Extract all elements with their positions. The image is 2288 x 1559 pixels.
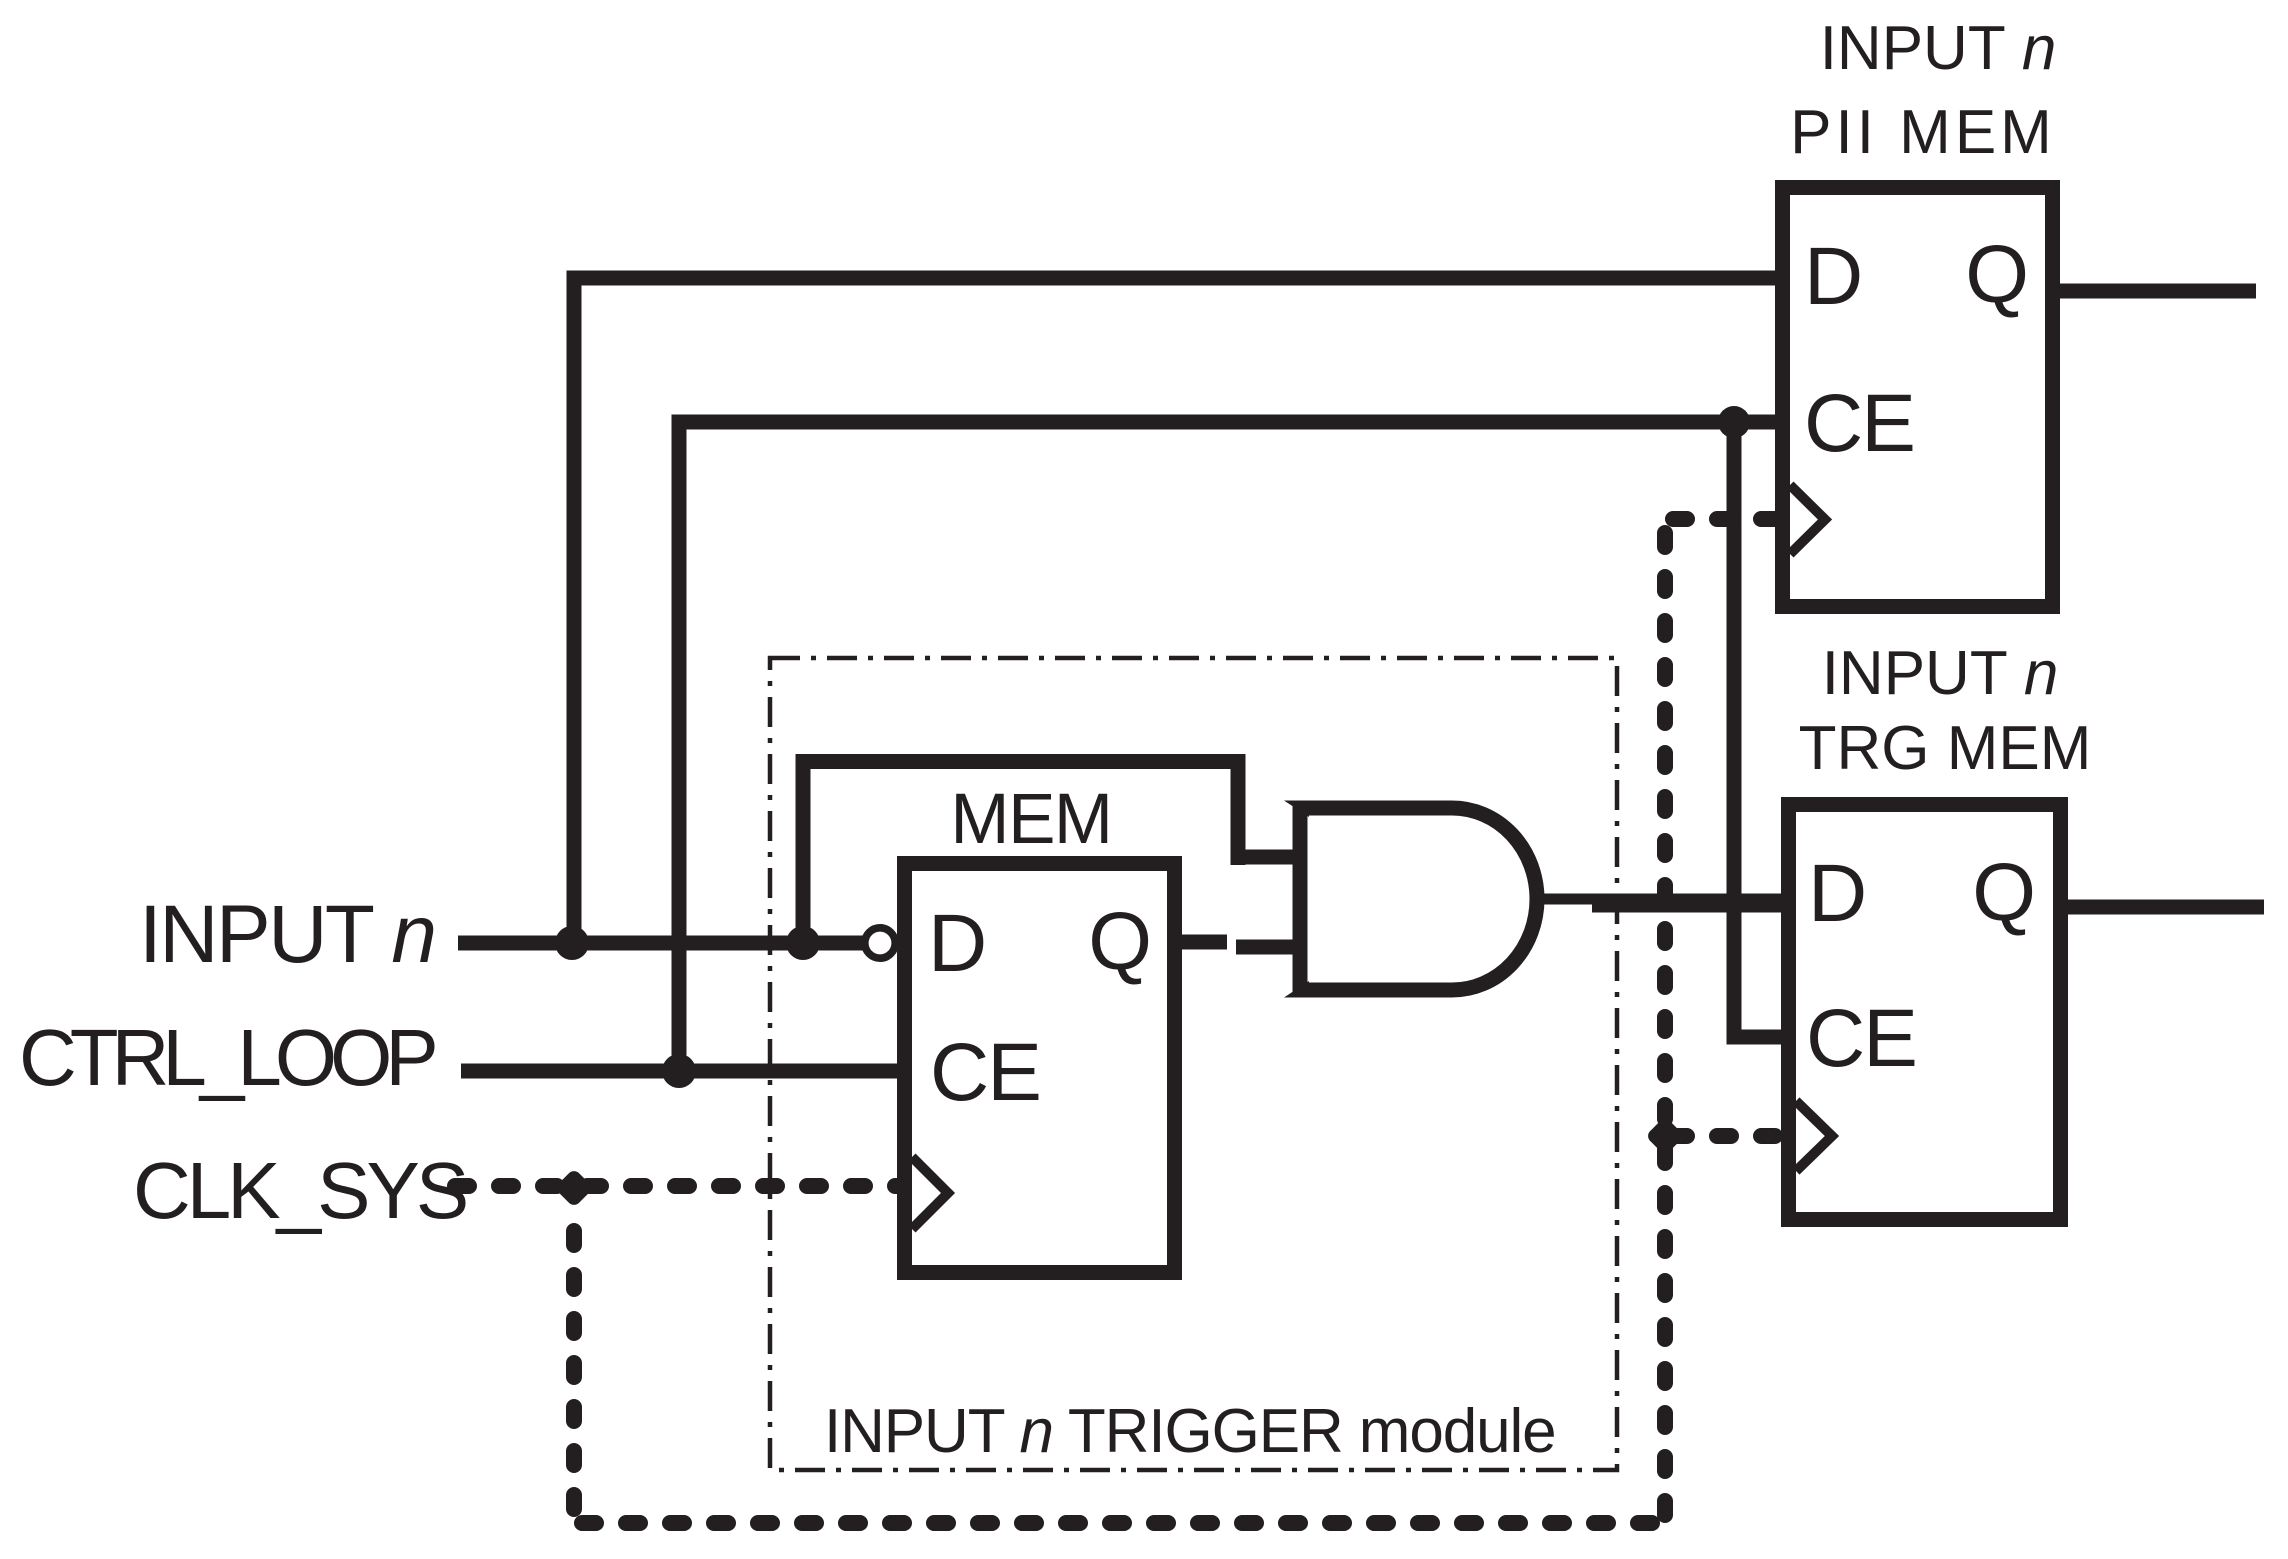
wire CLK dashed bottom horizontal xyxy=(574,1515,1665,1531)
wire vertical B from CTRL_LOOP up to PII MEM CE run xyxy=(672,415,687,1079)
module boundary dash-dot box INPUT n TRIGGER module xyxy=(770,658,1617,1470)
wire AND gate lower input stub xyxy=(1236,940,1300,955)
node junction dot feedback/D (x=803) xyxy=(786,926,820,960)
wire CLK dashed right vertical up to PII clock xyxy=(1657,519,1673,1523)
svg-text:D: D xyxy=(928,898,987,989)
svg-text:Q: Q xyxy=(1965,229,2029,320)
wire AND gate upper input stub xyxy=(1231,850,1301,865)
wire MEM Q output xyxy=(1174,935,1227,950)
AND gate U1 xyxy=(1300,808,1537,990)
svg-text:D: D xyxy=(1804,231,1863,322)
flip-flop PII MEM box xyxy=(1783,188,2053,607)
svg-text:CE: CE xyxy=(930,1027,1040,1118)
wire MEM feedback loop right vertical xyxy=(1231,754,1246,865)
svg-text:Q: Q xyxy=(1088,896,1152,987)
AND gate top-left flag xyxy=(1284,801,1309,818)
clock triangle of PII MEM xyxy=(1790,485,1825,554)
clock triangle of TRG MEM xyxy=(1796,1101,1832,1171)
wire vertical from CE junction down to TRG MEM CE xyxy=(1727,422,1742,1045)
wire TRG MEM Q output xyxy=(2061,900,2264,915)
svg-text:CTRL_LOOP: CTRL_LOOP xyxy=(19,1013,435,1102)
wire MEM feedback loop top horizontal xyxy=(796,754,1246,769)
clock triangle of MEM xyxy=(912,1157,948,1229)
node junction dot on CTRL_LOOP (x=679) xyxy=(662,1054,696,1088)
svg-text:INPUT n: INPUT n xyxy=(139,889,434,980)
svg-text:MEM: MEM xyxy=(950,780,1111,859)
wire CLK dashed into PII MEM clock xyxy=(1665,511,1779,527)
wire PII MEM Q output xyxy=(2053,284,2256,299)
wire vertical A from INPUT n up to PII MEM D run xyxy=(567,271,582,951)
svg-text:CE: CE xyxy=(1804,378,1914,469)
svg-text:PII MEM: PII MEM xyxy=(1790,98,2056,167)
wire CLK dashed into TRG MEM clock xyxy=(1665,1128,1785,1144)
flip-flop MEM box xyxy=(905,864,1175,1273)
svg-text:TRG MEM: TRG MEM xyxy=(1799,714,2092,783)
wire horizontal to PII MEM D input xyxy=(567,271,1776,286)
svg-text:INPUT n TRIGGER module: INPUT n TRIGGER module xyxy=(824,1397,1556,1466)
svg-text:CLK_SYS: CLK_SYS xyxy=(133,1146,466,1235)
AND gate bottom-left flag xyxy=(1284,981,1309,998)
wire CLK dashed vertical down from junction xyxy=(566,1223,582,1516)
wire CTRL_LOOP to MEM CE xyxy=(461,1064,897,1079)
wire MEM feedback loop left vertical xyxy=(796,754,811,944)
svg-text:INPUT n: INPUT n xyxy=(1822,639,2059,708)
wire CLK_SYS dashed to MEM clock xyxy=(447,1178,897,1194)
svg-text:D: D xyxy=(1808,848,1867,939)
node junction dot on CE run (x=1734) xyxy=(1718,406,1750,438)
node CLK_SYS junction diamond (x=574) xyxy=(554,1168,594,1208)
wire horizontal to PII MEM CE input xyxy=(672,415,1776,430)
svg-text:CE: CE xyxy=(1806,993,1916,1084)
node junction dot A on INPUT n wire (x=572) xyxy=(555,926,589,960)
svg-text:Q: Q xyxy=(1972,847,2036,938)
node TRG clock junction diamond (x=1665) xyxy=(1645,1116,1685,1156)
svg-text:INPUT n: INPUT n xyxy=(1820,14,2057,83)
inverter bubble at MEM D input xyxy=(865,928,895,958)
flip-flop TRG MEM box xyxy=(1789,805,2061,1220)
wire INPUT n trunk xyxy=(458,936,864,951)
wire AND output to TRG MEM D xyxy=(1537,894,1597,905)
wire stub into TRG MEM CE xyxy=(1727,1030,1785,1045)
